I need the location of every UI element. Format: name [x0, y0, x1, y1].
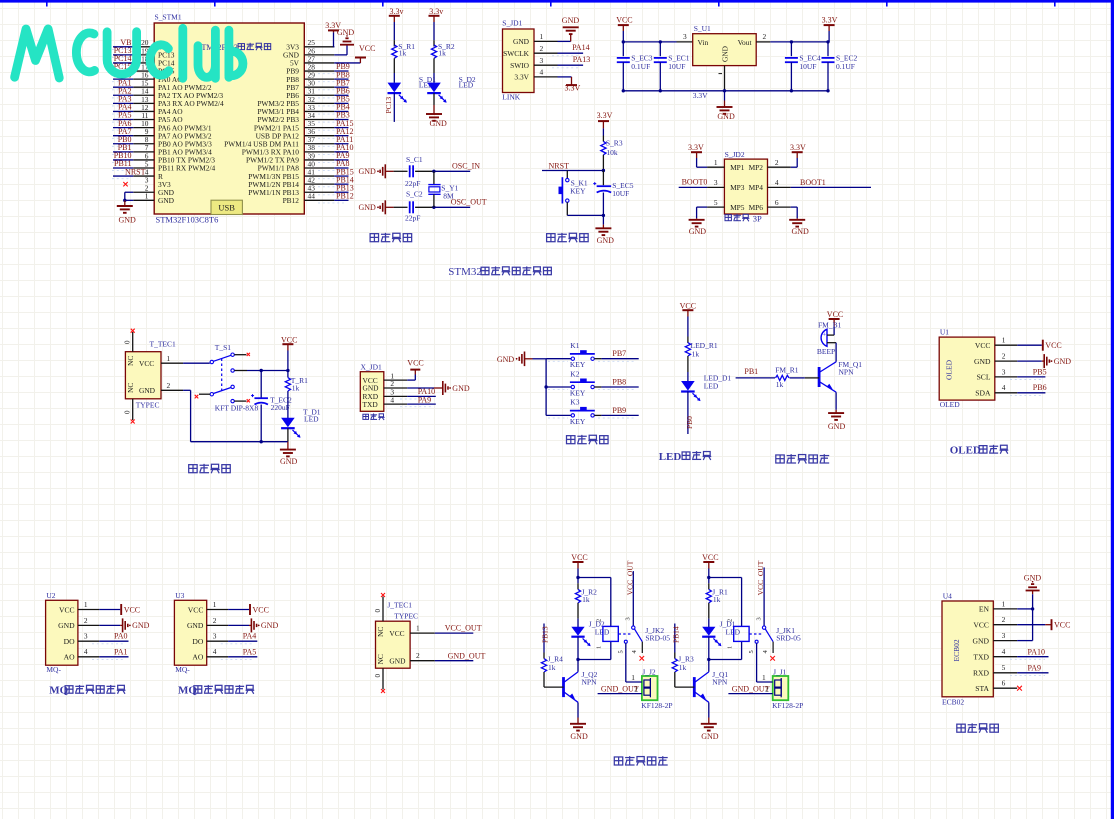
svg-text:KF128-2P: KF128-2P	[772, 701, 803, 710]
svg-text:KEY: KEY	[570, 388, 586, 397]
svg-text:LED: LED	[659, 451, 682, 463]
svg-text:GND: GND	[701, 732, 719, 741]
svg-text:J_J1: J_J1	[773, 667, 787, 676]
svg-text:S_R3: S_R3	[606, 139, 623, 148]
svg-text:GND: GND	[570, 732, 588, 741]
svg-text:GND: GND	[119, 216, 137, 225]
svg-text:RXD: RXD	[973, 669, 990, 678]
svg-text:5: 5	[714, 198, 718, 207]
svg-text:GND: GND	[389, 657, 406, 666]
svg-text:VCC: VCC	[124, 605, 140, 614]
svg-text:2: 2	[596, 619, 603, 622]
svg-text:VCC: VCC	[281, 335, 297, 344]
svg-text:TYPEC: TYPEC	[394, 612, 418, 621]
svg-text:3P: 3P	[753, 213, 762, 223]
svg-text:MQ-: MQ-	[175, 665, 190, 674]
svg-text:10k: 10k	[606, 148, 618, 157]
svg-text:GND: GND	[597, 236, 615, 245]
svg-text:VCC: VCC	[253, 605, 269, 614]
svg-text:3: 3	[755, 617, 762, 620]
svg-text:4: 4	[1002, 647, 1006, 656]
svg-text:MP3: MP3	[730, 183, 745, 192]
svg-text:Vout: Vout	[738, 38, 753, 47]
svg-text:PA9: PA9	[418, 395, 432, 404]
svg-text:PB5: PB5	[1033, 367, 1047, 376]
svg-text:3: 3	[625, 617, 632, 620]
svg-text:PA0: PA0	[114, 632, 128, 641]
svg-text:1k: 1k	[776, 380, 784, 389]
svg-text:OSC_OUT: OSC_OUT	[451, 198, 487, 207]
svg-text:220uF: 220uF	[271, 403, 290, 412]
svg-text:3.3v: 3.3v	[390, 7, 404, 16]
svg-text:SCL: SCL	[977, 373, 991, 382]
svg-text:S_JD1: S_JD1	[502, 19, 522, 28]
svg-text:1k: 1k	[692, 349, 700, 358]
svg-text:3.3v: 3.3v	[429, 7, 443, 16]
svg-text:2: 2	[634, 684, 638, 693]
svg-text:PA14: PA14	[572, 43, 590, 52]
svg-text:VCC: VCC	[616, 16, 632, 25]
svg-text:1: 1	[540, 32, 544, 41]
svg-text:1: 1	[726, 646, 733, 649]
svg-text:GND: GND	[689, 227, 707, 236]
svg-text:NPN: NPN	[712, 677, 728, 686]
svg-text:MP2: MP2	[749, 163, 764, 172]
svg-text:10UF: 10UF	[799, 62, 816, 71]
svg-text:2: 2	[775, 158, 779, 167]
svg-text:3.3V: 3.3V	[565, 84, 581, 93]
svg-text:3: 3	[540, 56, 544, 65]
svg-text:K3: K3	[570, 398, 579, 407]
svg-text:U1: U1	[940, 328, 949, 337]
svg-text:NC: NC	[376, 654, 385, 664]
svg-text:3: 3	[84, 632, 88, 641]
svg-text:TYPEC: TYPEC	[136, 400, 160, 409]
svg-text:NC: NC	[376, 627, 385, 637]
svg-text:T_TEC1: T_TEC1	[150, 340, 176, 349]
svg-text:S_C2: S_C2	[406, 190, 423, 199]
svg-text:VCC: VCC	[1054, 621, 1070, 630]
svg-text:5: 5	[1002, 663, 1006, 672]
svg-text:1: 1	[714, 158, 718, 167]
svg-text:FM_R1: FM_R1	[775, 366, 799, 375]
svg-text:NRST: NRST	[125, 167, 146, 176]
svg-text:6: 6	[1002, 679, 1006, 688]
svg-text:1k: 1k	[582, 595, 590, 604]
svg-text:BEEP: BEEP	[817, 347, 835, 356]
svg-text:0: 0	[124, 340, 132, 344]
svg-text:SRD-05: SRD-05	[776, 633, 801, 642]
svg-text:2: 2	[726, 619, 733, 622]
svg-text:2: 2	[1002, 615, 1006, 624]
svg-text:OLED: OLED	[940, 400, 961, 409]
svg-text:ECB02: ECB02	[952, 639, 961, 661]
svg-text:AO: AO	[192, 653, 203, 662]
svg-text:1k: 1k	[438, 48, 446, 57]
svg-text:4: 4	[1002, 383, 1006, 392]
svg-text:1k: 1k	[292, 383, 300, 392]
svg-text:0.1UF: 0.1UF	[836, 62, 855, 71]
svg-text:VCC: VCC	[407, 359, 423, 368]
svg-text:BOOT0: BOOT0	[682, 178, 708, 187]
svg-text:1k: 1k	[713, 595, 721, 604]
svg-text:NC: NC	[126, 383, 135, 393]
svg-text:GND: GND	[430, 119, 448, 128]
svg-text:2: 2	[213, 616, 217, 625]
svg-text:2: 2	[84, 616, 88, 625]
svg-text:3.3V: 3.3V	[790, 143, 806, 152]
svg-text:GND: GND	[187, 621, 204, 630]
svg-text:0: 0	[374, 609, 382, 613]
svg-text:PA1: PA1	[114, 647, 128, 656]
svg-text:STM32: STM32	[448, 266, 482, 278]
svg-text:1k: 1k	[548, 663, 556, 672]
svg-text:3.3V: 3.3V	[693, 91, 708, 100]
svg-text:GND: GND	[497, 355, 515, 364]
svg-text:S_STM1: S_STM1	[155, 13, 182, 22]
svg-text:4: 4	[390, 395, 394, 404]
svg-text:KEY: KEY	[570, 186, 586, 195]
svg-text:1: 1	[762, 673, 766, 682]
svg-text:K2: K2	[570, 369, 579, 378]
svg-text:PA13: PA13	[573, 55, 591, 64]
svg-text:GND: GND	[452, 384, 470, 393]
svg-text:22pF: 22pF	[405, 179, 420, 188]
svg-text:VCC: VCC	[359, 44, 375, 53]
svg-text:3.3V: 3.3V	[822, 16, 838, 25]
svg-text:TXD: TXD	[363, 400, 379, 409]
svg-text:AO: AO	[64, 653, 75, 662]
svg-text:KF128-2P: KF128-2P	[641, 701, 672, 710]
svg-text:0: 0	[374, 674, 382, 678]
svg-text:10UF: 10UF	[612, 189, 629, 198]
svg-text:SWIO: SWIO	[510, 61, 530, 70]
svg-text:PB13: PB13	[541, 626, 550, 643]
svg-text:0: 0	[124, 410, 132, 414]
svg-text:GND: GND	[280, 457, 298, 466]
svg-text:PB1: PB1	[744, 367, 758, 376]
svg-text:2: 2	[1002, 352, 1006, 361]
svg-text:22pF: 22pF	[405, 214, 420, 223]
svg-text:OSC_IN: OSC_IN	[452, 161, 480, 170]
svg-text:3.3V: 3.3V	[514, 73, 529, 82]
svg-text:NPN: NPN	[582, 677, 598, 686]
svg-text:STM32F103C8T6: STM32F103C8T6	[156, 215, 219, 225]
svg-text:S_C1: S_C1	[406, 155, 423, 164]
svg-text:+: +	[823, 332, 827, 339]
svg-text:LED: LED	[704, 381, 719, 390]
svg-text:2: 2	[416, 651, 420, 660]
svg-text:10UF: 10UF	[668, 62, 685, 71]
svg-text:3: 3	[683, 32, 687, 41]
svg-text:1k: 1k	[399, 48, 407, 57]
svg-text:1k: 1k	[679, 663, 687, 672]
svg-text:2: 2	[540, 44, 544, 53]
svg-text:TXD: TXD	[973, 653, 989, 662]
svg-text:3: 3	[213, 632, 217, 641]
svg-text:VCC_OUT: VCC_OUT	[445, 624, 482, 633]
svg-text:K1: K1	[570, 341, 579, 350]
svg-text:PB6: PB6	[1033, 383, 1047, 392]
svg-text:KEY: KEY	[570, 417, 586, 426]
svg-text:GND: GND	[1054, 357, 1072, 366]
svg-text:VCC: VCC	[571, 553, 587, 562]
svg-text:8M: 8M	[443, 191, 454, 200]
svg-text:PA10: PA10	[1028, 647, 1046, 656]
svg-text:S_U1: S_U1	[694, 24, 711, 33]
svg-text:LED: LED	[304, 414, 319, 423]
svg-text:3.3V: 3.3V	[597, 111, 613, 120]
svg-text:5: 5	[617, 650, 624, 653]
svg-text:LINK: LINK	[502, 92, 520, 101]
svg-text:1: 1	[416, 624, 420, 633]
svg-text:1: 1	[596, 646, 603, 649]
svg-text:GND_OUT: GND_OUT	[732, 684, 770, 693]
svg-text:SWCLK: SWCLK	[503, 49, 530, 58]
svg-text:OLED: OLED	[950, 445, 981, 457]
svg-text:PB12: PB12	[283, 196, 300, 205]
svg-text:44: 44	[308, 192, 316, 201]
svg-text:MP4: MP4	[749, 183, 764, 192]
svg-text:3.3V: 3.3V	[688, 143, 704, 152]
svg-text:1: 1	[145, 192, 149, 201]
svg-text:NRST: NRST	[549, 162, 570, 171]
svg-text:KFT DIP-8X8: KFT DIP-8X8	[215, 403, 259, 412]
svg-text:U4: U4	[943, 591, 952, 600]
svg-text:GND: GND	[132, 621, 150, 630]
svg-text:DO: DO	[192, 637, 203, 646]
svg-text:GND: GND	[828, 422, 846, 431]
svg-text:MP5: MP5	[730, 203, 745, 212]
svg-text:SDA: SDA	[975, 389, 991, 398]
svg-text:OLED: OLED	[945, 359, 954, 380]
svg-text:PB8: PB8	[612, 377, 626, 386]
svg-text:MP1: MP1	[730, 163, 745, 172]
svg-text:GND: GND	[261, 621, 279, 630]
svg-text:VCC: VCC	[139, 359, 154, 368]
svg-text:GND: GND	[337, 28, 355, 37]
svg-text:MQ-: MQ-	[46, 665, 61, 674]
svg-text:DO: DO	[64, 637, 75, 646]
svg-text:1: 1	[213, 600, 217, 609]
svg-text:GND: GND	[58, 621, 75, 630]
svg-text:4: 4	[540, 68, 544, 77]
svg-text:X_JD1: X_JD1	[361, 363, 383, 372]
svg-text:U2: U2	[46, 591, 55, 600]
svg-text:T_S1: T_S1	[215, 343, 232, 352]
svg-text:2: 2	[167, 381, 171, 390]
svg-text:GND_OUT: GND_OUT	[448, 652, 486, 661]
svg-text:GND: GND	[139, 386, 156, 395]
svg-text:ECB02: ECB02	[942, 697, 964, 706]
svg-text:PB11 RX PWM2/4: PB11 RX PWM2/4	[158, 164, 216, 173]
svg-text:J_TEC1: J_TEC1	[387, 601, 412, 610]
svg-text:4: 4	[775, 178, 779, 187]
svg-text:PB9: PB9	[612, 406, 626, 415]
svg-text:3: 3	[1002, 367, 1006, 376]
svg-text:VCC: VCC	[973, 621, 989, 630]
svg-text:NPN: NPN	[839, 367, 855, 376]
svg-text:GND: GND	[562, 16, 580, 25]
svg-text:GND: GND	[973, 636, 990, 645]
svg-text:KEY: KEY	[570, 360, 586, 369]
svg-text:EN: EN	[979, 605, 990, 614]
svg-text:1: 1	[631, 673, 635, 682]
svg-text:NC: NC	[126, 356, 135, 366]
svg-text:S_JD2: S_JD2	[725, 150, 745, 159]
svg-text:PB14: PB14	[671, 626, 680, 643]
svg-text:2: 2	[763, 32, 767, 41]
svg-text:J_J2: J_J2	[642, 667, 656, 676]
svg-text:VCC: VCC	[827, 310, 843, 319]
svg-text:PC13: PC13	[384, 97, 393, 114]
svg-text:U3: U3	[175, 591, 184, 600]
svg-text:2: 2	[765, 684, 769, 693]
svg-text:VCC: VCC	[702, 553, 718, 562]
svg-text:FM_B1: FM_B1	[818, 321, 842, 330]
svg-text:GND: GND	[513, 37, 530, 46]
svg-text:1: 1	[167, 354, 171, 363]
svg-text:GND: GND	[1024, 573, 1042, 582]
svg-text:GND: GND	[358, 167, 376, 176]
svg-text:VCC: VCC	[389, 629, 404, 638]
svg-text:3: 3	[714, 178, 718, 187]
svg-text:1: 1	[1002, 599, 1006, 608]
svg-text:PA5: PA5	[243, 647, 256, 656]
svg-text:GND: GND	[717, 112, 735, 121]
svg-text:4: 4	[84, 647, 88, 656]
svg-text:VCC: VCC	[1045, 341, 1061, 350]
svg-text:PB0: PB0	[685, 416, 694, 429]
svg-text:PA4: PA4	[243, 632, 256, 641]
svg-text:GND: GND	[358, 203, 376, 212]
svg-text:VCC: VCC	[975, 341, 991, 350]
svg-text:6: 6	[775, 198, 779, 207]
svg-text:SRD-05: SRD-05	[645, 633, 670, 642]
svg-text:VCC: VCC	[59, 605, 75, 614]
svg-text:Vin: Vin	[698, 38, 709, 47]
svg-text:STA: STA	[975, 684, 989, 693]
svg-text:VCC: VCC	[188, 605, 204, 614]
svg-text:1: 1	[1002, 336, 1006, 345]
svg-text:PB7: PB7	[612, 349, 626, 358]
svg-text:4: 4	[213, 647, 217, 656]
svg-text:0.1UF: 0.1UF	[631, 62, 650, 71]
svg-text:5: 5	[748, 650, 755, 653]
svg-text:GND: GND	[792, 227, 810, 236]
svg-text:GND: GND	[721, 45, 730, 62]
svg-text:GND: GND	[974, 357, 991, 366]
svg-text:3: 3	[1002, 631, 1006, 640]
svg-text:1: 1	[84, 600, 88, 609]
svg-text:PA9: PA9	[1028, 664, 1042, 673]
svg-text:BOOT1: BOOT1	[800, 178, 826, 187]
svg-text:PB12: PB12	[336, 192, 354, 201]
svg-text:LED: LED	[459, 81, 474, 90]
svg-text:USB: USB	[218, 203, 235, 213]
svg-text:GND: GND	[158, 196, 175, 205]
svg-text:MP6: MP6	[749, 203, 764, 212]
svg-text:VCC: VCC	[680, 301, 696, 310]
svg-text:GND_OUT: GND_OUT	[601, 684, 639, 693]
